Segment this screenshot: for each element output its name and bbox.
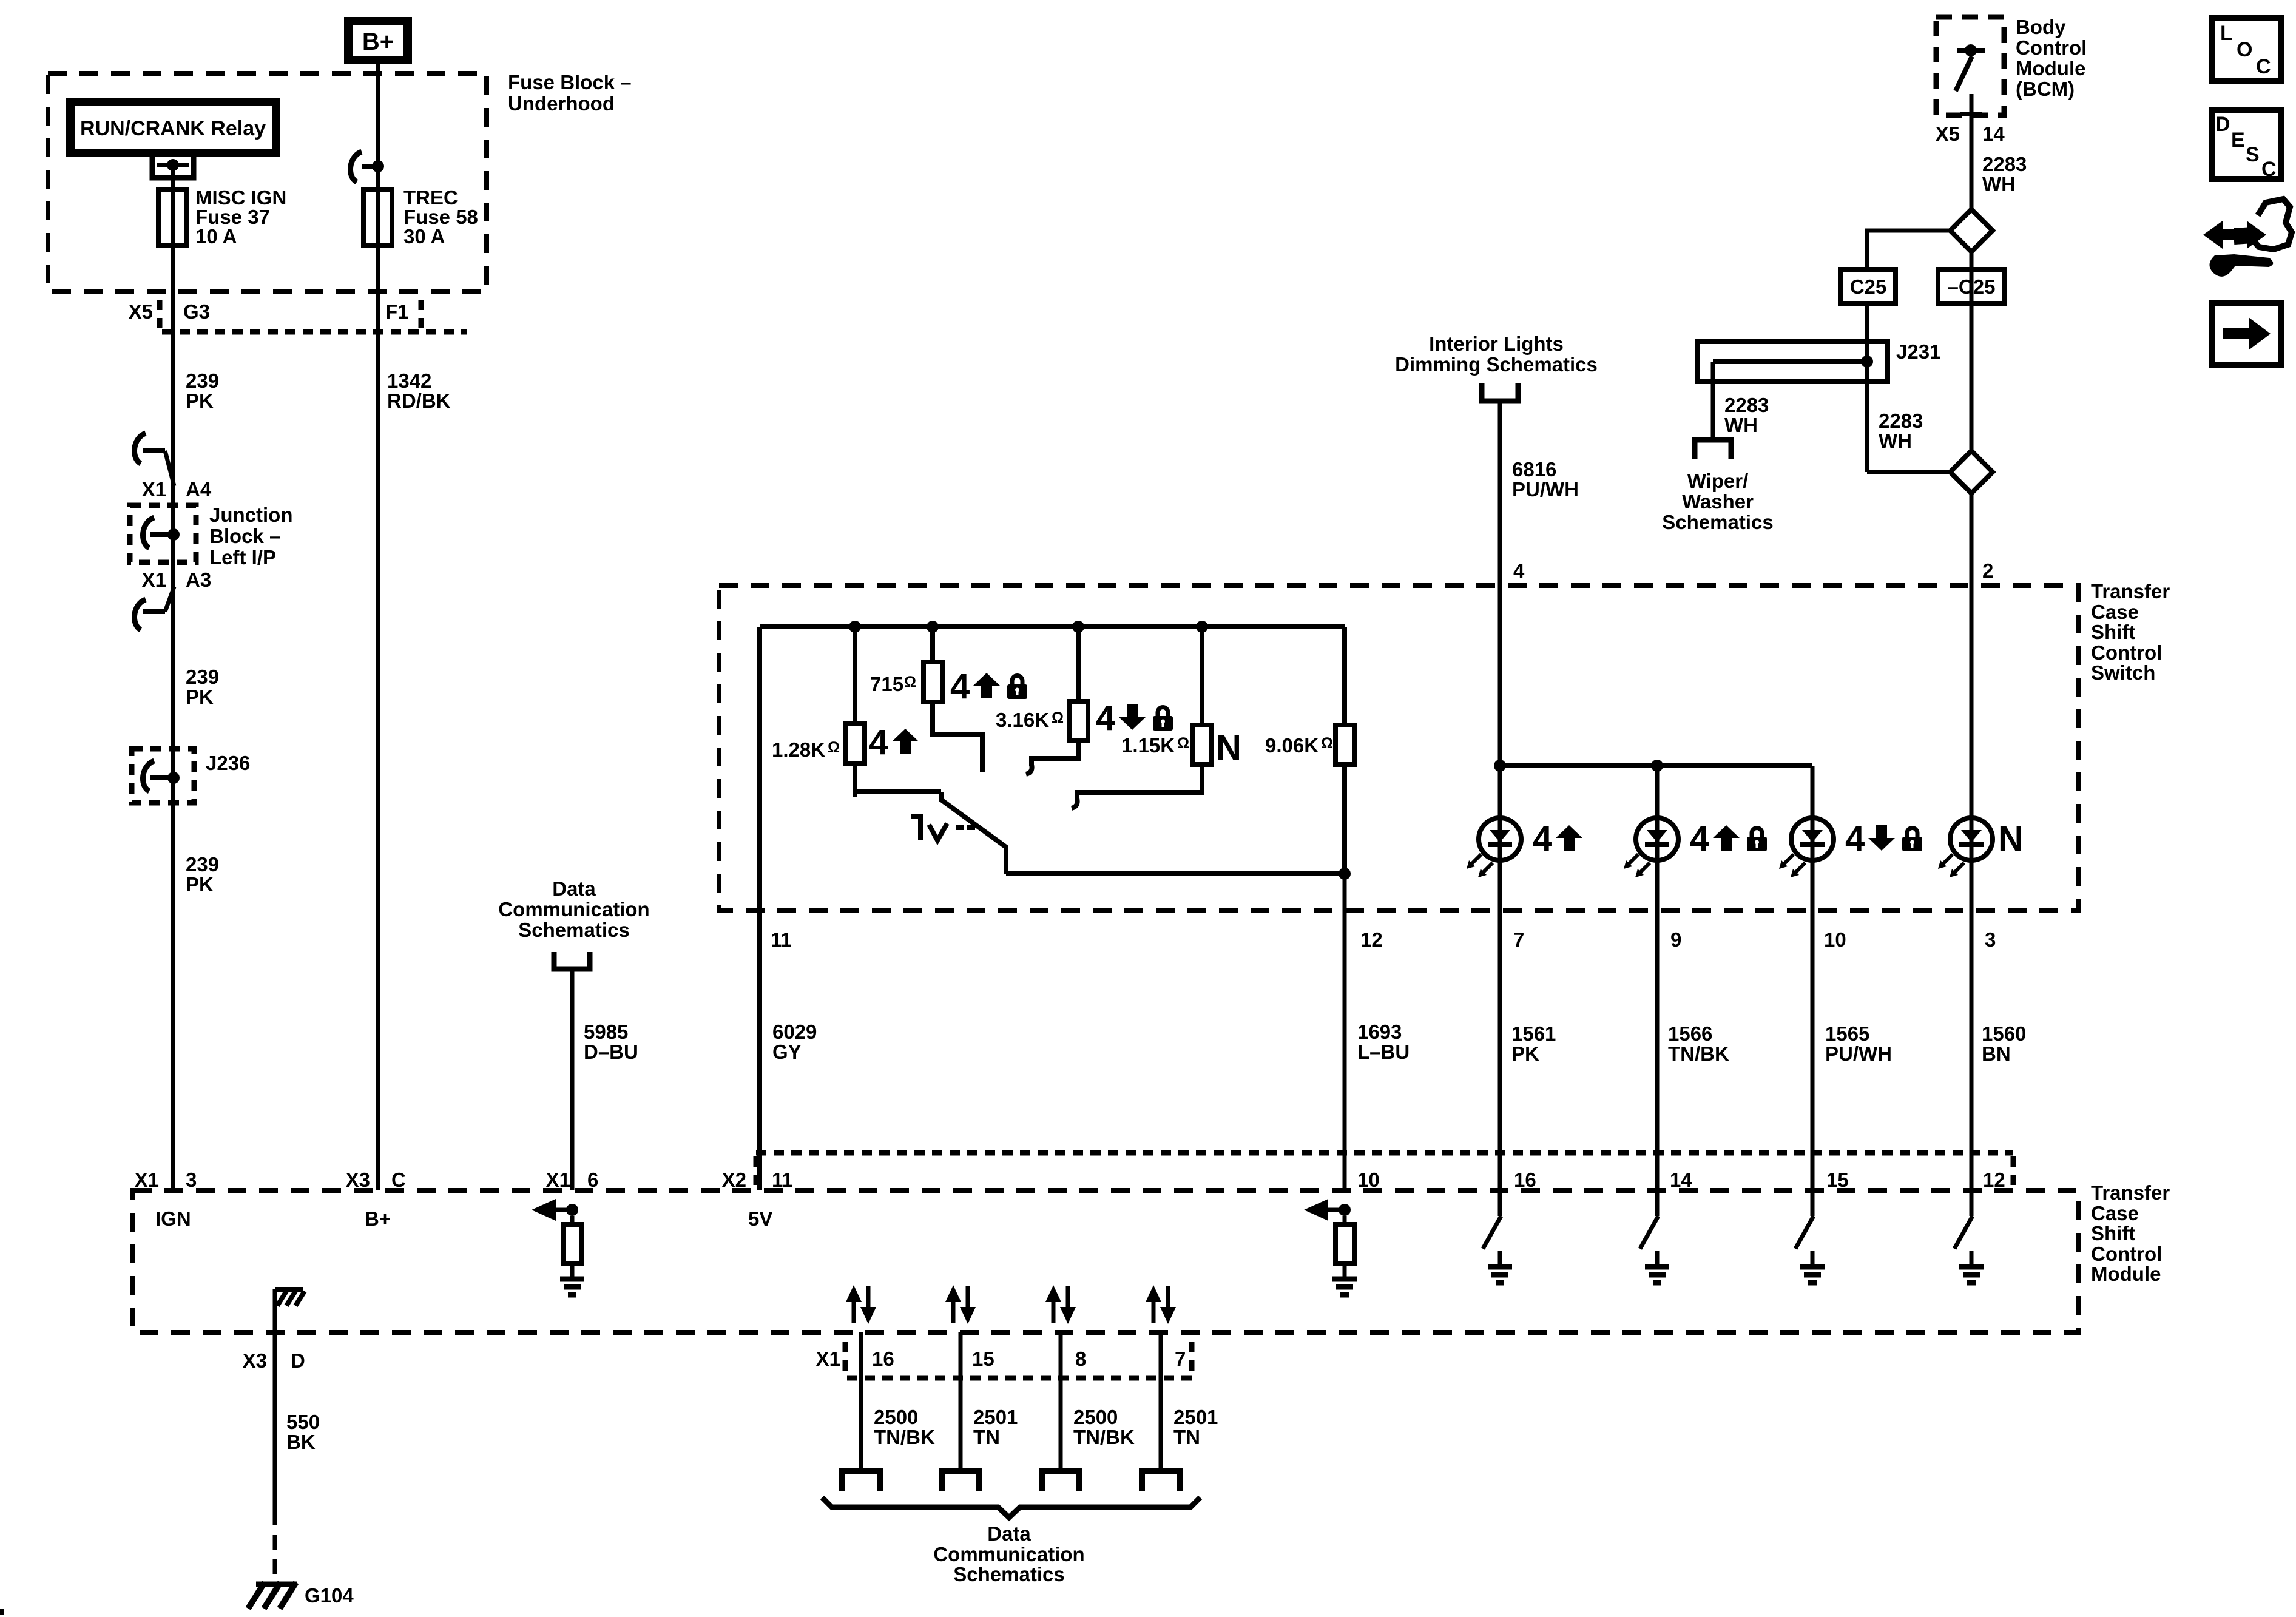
off-page connector data bus fourth [1142,1471,1180,1491]
resistor R2 715 [923,627,942,702]
label wire 2283 WH at BCM [1982,153,2027,195]
svg-text:2283: 2283 [1724,394,1769,416]
svg-text:A3: A3 [186,569,211,591]
svg-text:1.28K: 1.28K [772,738,825,761]
svg-text:2501: 2501 [1173,1406,1218,1428]
chassis ground inside module at X3 D [275,1289,305,1332]
pin X1 6 labels [546,1169,599,1191]
label Fuse Block Underhood [508,71,632,115]
label LED 4WD-up-lock [1690,819,1767,859]
svg-text:4: 4 [869,723,888,762]
svg-text:X2: X2 [722,1169,746,1191]
label 1.15K ohm [1121,734,1189,757]
svg-text:C: C [2261,158,2277,181]
wire LED supply branch [1500,763,1812,768]
svg-text:3: 3 [186,1169,197,1191]
label wire 6816 PU/WH [1512,458,1579,501]
svg-text:Fuse Block –: Fuse Block – [508,71,632,93]
pin 3 label at switch [1985,928,1996,951]
connector F1 tick [419,300,424,329]
wire BCM output stub [1970,94,1974,209]
pin 14 label at module [1670,1169,1692,1191]
pin 11 label at switch [771,928,792,951]
relay common bar [157,163,189,167]
svg-text:2283: 2283 [1982,153,2027,175]
svg-text:Schematics: Schematics [1662,511,1773,533]
connector tick right of pin 12 [2011,1156,2016,1187]
net B+ label [365,1207,391,1230]
label wire 1342 RD/BK [387,370,451,412]
node branch at LED1 [1494,760,1506,772]
svg-text:X1: X1 [142,478,166,501]
wire I lamp feed (2283 WH) [1970,252,1974,451]
wire R4 contact [1077,765,1202,800]
page artifact dot bottom left [0,1609,4,1615]
icon DESC box [2212,110,2281,181]
svg-text:3: 3 [1985,928,1996,951]
svg-text:550: 550 [286,1411,320,1433]
svg-text:1.15K: 1.15K [1121,734,1175,757]
svg-text:Control: Control [2016,36,2087,59]
resistor module pull-up on pin 10 [1335,1216,1354,1277]
hook R3 contact [1026,765,1032,774]
pin X3 D labels [243,1349,305,1372]
svg-text:9.06K: 9.06K [1265,734,1319,757]
wire switch top rail [760,624,1345,629]
switch to ground pin 12 [1954,1190,1984,1283]
pin 10 label at switch [1824,928,1846,951]
svg-text:Module: Module [2016,57,2085,79]
label wire 1566 TN/BK [1668,1022,1729,1065]
fuse F58 TREC [363,190,392,245]
node junction block splice [167,528,180,541]
label wire 2500 TN/BK third [1073,1406,1135,1448]
wire data bus 2500 TN/BK third [1059,1332,1063,1471]
label wire 2501 TN second [973,1406,1018,1448]
svg-text:X1: X1 [142,569,166,591]
relay RUN/CRANK Relay box [70,102,276,153]
switch to ground pin 16 [1483,1190,1512,1283]
svg-text:J231: J231 [1896,340,1940,363]
svg-text:Wiper/: Wiper/ [1687,470,1749,492]
resistor R5 9.06K [1335,627,1354,874]
pin 15 bottom label [972,1348,994,1370]
off-page connector data communication upper [554,952,590,969]
pin 16 label at module [1514,1169,1536,1191]
pin 9 label at switch [1670,928,1681,951]
label 1.28K ohm [772,738,840,761]
svg-text:8: 8 [1075,1348,1086,1370]
wire LED3 to pin 10 [1811,858,1815,1190]
label wire 1561 PK [1511,1022,1556,1065]
off-page connector data bus second [942,1471,979,1491]
wire J231 internal bus [1713,359,1867,364]
label 4WD-up position R1 [869,723,919,762]
connector X1 A3 hook [135,587,174,630]
svg-text:Washer: Washer [1682,490,1754,513]
svg-text:Data: Data [987,1522,1031,1545]
node rail R2 [927,621,939,633]
label wire 239 PK upper [186,370,219,412]
pin F1 label [385,300,409,323]
svg-text:TN: TN [1173,1426,1200,1448]
svg-text:1342: 1342 [387,370,431,392]
wire J231 bottom to diamond [1867,470,1950,474]
svg-text:10: 10 [1357,1169,1380,1191]
svg-text:X1: X1 [135,1169,159,1191]
junction block left I/P dashed box [130,505,196,562]
pin 7 label at switch [1513,928,1524,951]
wire 550 BK ground wire [273,1332,277,1511]
svg-text:4: 4 [1845,819,1865,859]
node pin 10 junction [1339,1204,1351,1216]
pin tick at BCM box bottom [1960,112,1982,116]
svg-text:4: 4 [1096,698,1115,738]
label wire 2500 TN/BK first [874,1406,935,1448]
net IGN label [155,1207,191,1230]
connector X1 bottom dashed line [847,1376,1192,1381]
svg-text:16: 16 [1514,1169,1536,1191]
switch inside BCM [1956,44,1985,91]
label Junction Block Left I/P [209,504,293,569]
svg-text:14: 14 [1982,123,2005,145]
svg-text:1561: 1561 [1511,1022,1556,1045]
svg-text:IGN: IGN [155,1207,191,1230]
resistor module pull-up on serial data [563,1216,582,1277]
svg-text:Control: Control [2091,641,2162,664]
svg-text:1560: 1560 [1982,1022,2026,1045]
svg-text:Ω: Ω [828,739,840,756]
svg-text:X5: X5 [129,300,153,323]
power symbol B+ box [348,21,408,60]
svg-text:2500: 2500 [874,1406,918,1428]
svg-text:S: S [2246,143,2260,166]
switch operator symbol [911,816,975,840]
wire R2 contact [933,702,982,772]
svg-text:(BCM): (BCM) [2016,78,2075,100]
svg-text:TN/BK: TN/BK [874,1426,935,1448]
svg-text:X5: X5 [1936,123,1960,145]
data arrows pair pin 15 [945,1285,976,1324]
label wire 550 BK [286,1411,320,1453]
wire 550 BK dashed continuation [273,1511,277,1580]
label wire 2501 TN fourth [1173,1406,1218,1448]
svg-text:L–BU: L–BU [1357,1041,1410,1063]
wire A ignition feed (239 PK / IGN) [171,165,175,1190]
pin 15 label at module [1826,1169,1849,1191]
label Interior Lights Dimming Schematics [1395,333,1598,376]
label wire 239 PK middle [186,666,219,708]
label Wiper Washer Schematics [1662,470,1773,533]
fuse block underhood dashed box [48,73,487,292]
pin 8 bottom label [1075,1348,1086,1370]
svg-text:11: 11 [772,1169,793,1191]
svg-text:Body: Body [2016,16,2066,38]
connector hook on TREC feed [351,152,362,182]
wire data bus 2500 TN/BK first [859,1332,863,1471]
ground module serial data [560,1279,584,1295]
svg-text:6: 6 [587,1169,598,1191]
wire diamond to pin 2 [1970,493,1974,818]
pin 4 label [1513,559,1525,582]
svg-text:BK: BK [286,1431,316,1453]
pin X2 11 labels [722,1169,793,1191]
node J231 splice [1861,356,1873,368]
label MISC IGN Fuse 37 10 A [195,186,286,248]
label wire 1693 L-BU [1357,1021,1410,1063]
icon hand with double arrow and wrench [2203,199,2292,277]
resistor R4 1.15K [1193,627,1212,765]
svg-text:PK: PK [1511,1042,1539,1065]
splice J236 dashed box [132,749,194,803]
resistor R1 1.28K [846,627,865,797]
svg-text:Transfer: Transfer [2091,1181,2170,1204]
pin X1 bottom label [816,1348,840,1370]
svg-text:Underhood: Underhood [508,92,615,115]
svg-text:4: 4 [1690,819,1709,859]
node TREC tap [372,160,384,172]
svg-text:4: 4 [950,667,970,706]
svg-text:X1: X1 [816,1348,840,1370]
data arrows pair pin 7 [1146,1285,1176,1324]
label 4WD-down-lock position R3 [1096,698,1173,738]
signal arrow at pin 10 [1304,1199,1345,1221]
wire data bus 2501 TN fourth [1159,1332,1163,1471]
svg-text:Block –: Block – [209,525,280,547]
signal arrow at X1 6 [532,1199,572,1221]
pin X1 3 labels [135,1169,197,1191]
wire B battery feed (1342 RD/BK / B+) [376,164,380,1190]
LED indicator 4WD-up-lock [1624,818,1678,877]
svg-text:C: C [2256,55,2271,78]
svg-text:PK: PK [186,873,214,896]
svg-text:A4: A4 [186,478,212,501]
pin 12 label at switch [1360,928,1383,951]
label wire 239 PK lower [186,853,219,896]
off-page connector data bus first [842,1471,880,1491]
switch wiper arm [941,792,1006,874]
off-page connector interior lights [1482,383,1518,401]
svg-text:Ω: Ω [904,673,916,690]
splice pack J231 box [1698,342,1888,382]
svg-text:2283: 2283 [1879,410,1923,432]
svg-text:Transfer: Transfer [2091,580,2170,603]
svg-text:Schematics: Schematics [518,919,629,941]
label Transfer Case Shift Control Module [2091,1181,2170,1285]
node wiper to pin 12 [1339,868,1351,880]
pin X5 G3 labels [129,300,210,323]
svg-text:–C25: –C25 [1948,275,1996,298]
label 4WD-up-lock position R2 [950,667,1027,706]
svg-text:6029: 6029 [772,1021,817,1043]
svg-text:1565: 1565 [1825,1022,1869,1045]
wire TREC hook bar [362,164,378,169]
svg-text:5V: 5V [748,1207,772,1230]
svg-text:Case: Case [2091,601,2139,623]
label Body Control Module (BCM) [2016,16,2087,100]
svg-text:N: N [1998,819,2024,859]
hook R4 contact [1072,798,1078,808]
fuse F37 MISC IGN [158,190,187,245]
svg-text:3.16K: 3.16K [996,709,1049,731]
net 5V label [748,1207,772,1230]
label J231 [1896,340,1940,363]
svg-text:X3: X3 [346,1169,370,1191]
transfer case shift control switch dashed box [719,586,2078,910]
wire R1 to wiper [855,763,941,792]
label TREC Fuse 58 30 A [403,186,478,248]
svg-text:BN: BN [1982,1042,2011,1065]
connector X2 tick [754,1156,759,1187]
svg-text:WH: WH [1879,430,1912,452]
svg-text:Case: Case [2091,1202,2139,1224]
svg-text:D: D [2215,113,2230,136]
svg-text:G3: G3 [183,300,210,323]
connector X1 A4 hook [135,433,174,486]
pin X3 C labels [346,1169,406,1191]
svg-text:F1: F1 [385,300,409,323]
svg-text:Dimming Schematics: Dimming Schematics [1395,353,1598,376]
svg-text:Ω: Ω [1052,709,1064,726]
svg-text:Shift: Shift [2091,1222,2135,1244]
node serial data junction [566,1204,578,1216]
wire LED2 drop [1655,766,1660,818]
node rail R3 [1072,621,1084,633]
label wire 2283 WH wiper branch [1724,394,1769,436]
icon LOC box [2212,18,2281,81]
svg-text:D–BU: D–BU [584,1041,638,1063]
wire D 5V reference (6029 GY) [757,627,762,1190]
svg-text:TN/BK: TN/BK [1668,1042,1729,1065]
svg-text:E: E [2231,129,2245,152]
svg-text:RD/BK: RD/BK [387,390,451,412]
label wire 6029 GY [772,1021,817,1063]
svg-text:PU/WH: PU/WH [1825,1042,1892,1065]
label G104 [305,1584,354,1607]
svg-text:239: 239 [186,853,219,876]
svg-text:X1: X1 [546,1169,570,1191]
connector X5 tick [157,300,163,329]
svg-text:Data: Data [552,877,596,900]
body control module BCM dashed box [1936,17,2004,115]
label LED 4WD-down-lock [1845,819,1922,859]
svg-text:239: 239 [186,666,219,688]
connector X1 bottom left tick [843,1342,848,1376]
svg-text:Communication: Communication [933,1543,1084,1565]
svg-text:PK: PK [186,686,214,708]
svg-text:1693: 1693 [1357,1021,1402,1043]
off-page connector data bus third [1042,1471,1079,1491]
svg-text:7: 7 [1513,928,1524,951]
pin 10 label at module [1357,1169,1380,1191]
svg-text:L: L [2220,22,2233,45]
svg-text:TN: TN [973,1426,1000,1448]
svg-text:G104: G104 [305,1584,354,1607]
connector X1 bottom right tick [1189,1342,1195,1376]
label wire 5985 D-BU [584,1021,638,1063]
splice diamond upper [1950,209,1993,252]
svg-text:Interior Lights: Interior Lights [1429,333,1564,355]
svg-text:O: O [2237,38,2252,61]
svg-text:11: 11 [771,928,792,951]
wire LED1 to pin 7 [1498,858,1502,1190]
label wire 1565 PU/WH [1825,1022,1892,1065]
connector inside junction block [143,518,170,548]
LED indicator 4WD-down-lock [1779,818,1834,877]
svg-text:Control: Control [2091,1243,2162,1265]
pin 2 label [1982,559,1993,582]
svg-text:16: 16 [872,1348,894,1370]
relay contact bracket [152,155,194,178]
connector X2 dashed line [756,1150,2013,1156]
svg-text:2: 2 [1982,559,1993,582]
svg-text:N: N [1216,728,1241,768]
LED indicator neutral [1938,818,1993,877]
pin X1 A3 labels [142,569,212,591]
node rail R1 [849,621,861,633]
label 715 ohm [870,673,916,695]
wire wiper common rail [1006,871,1345,876]
svg-text:1566: 1566 [1668,1022,1712,1045]
svg-text:12: 12 [1360,928,1383,951]
wire E position sense (1693 L-BU) [1343,874,1347,1190]
svg-text:Ω: Ω [1177,735,1189,752]
icon arrow box [2212,303,2281,365]
switch to ground pin 15 [1795,1190,1825,1283]
svg-text:4: 4 [1533,819,1552,859]
svg-text:10: 10 [1824,928,1846,951]
resistor R3 3.16K [1069,627,1088,741]
svg-text:Switch: Switch [2091,661,2155,684]
svg-text:B+: B+ [365,1207,391,1230]
label LED neutral N [1998,819,2024,859]
wire B+ box to fuse block [376,64,380,164]
wire LED4 to pin 3 [1970,858,1974,1190]
connector inside J236 [143,761,170,791]
svg-text:2500: 2500 [1073,1406,1118,1428]
connector C25 box [1841,269,1896,303]
svg-text:Left I/P: Left I/P [209,546,276,569]
pin 16 bottom label [872,1348,894,1370]
svg-text:WH: WH [1982,173,2016,195]
svg-text:12: 12 [1983,1169,2005,1191]
svg-text:Ω: Ω [1321,735,1333,752]
label Data Communication Schematics upper [498,877,649,941]
svg-text:4: 4 [1513,559,1525,582]
svg-text:PU/WH: PU/WH [1512,478,1579,501]
wire J231 to wiper washer [1711,362,1715,437]
svg-text:Module: Module [2091,1263,2161,1285]
switch to ground pin 14 [1640,1190,1669,1283]
node relay output [167,159,179,171]
label LED 4WD-up [1533,819,1582,859]
label wire 2283 WH right branch [1879,410,1923,452]
data arrows pair pin 8 [1045,1285,1076,1324]
svg-text:D: D [291,1349,305,1372]
svg-text:B+: B+ [362,29,394,55]
svg-text:2501: 2501 [973,1406,1018,1428]
svg-text:C25: C25 [1850,275,1887,298]
svg-text:15: 15 [1826,1169,1849,1191]
svg-text:15: 15 [972,1348,994,1370]
svg-text:10 A: 10 A [195,225,237,248]
wire LED2 to pin 9 [1655,858,1660,1190]
svg-text:239: 239 [186,370,219,392]
svg-text:7: 7 [1175,1348,1186,1370]
label N neutral position R4 [1216,728,1241,768]
label wire 1560 BN [1982,1022,2026,1065]
svg-text:Shift: Shift [2091,621,2135,643]
